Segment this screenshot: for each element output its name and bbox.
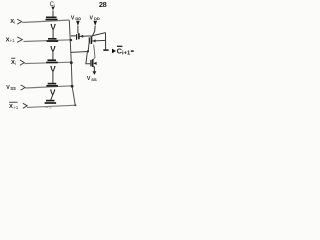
power VDD2 arrow: [93, 21, 97, 26]
svg-text:V: V: [71, 15, 75, 21]
svg-text:V: V: [90, 15, 94, 21]
input arrow Xbar i: [20, 60, 24, 65]
junction VSS row / node: [71, 85, 74, 88]
svg-text:SS: SS: [91, 77, 97, 82]
input terminal VSS left: [6, 85, 16, 91]
svg-text:DD: DD: [75, 16, 81, 21]
wire Q3 to Q4: [52, 72, 54, 84]
wire Q7 gate down: [87, 44, 90, 52]
transistor Q2: [47, 39, 59, 41]
wire Xi-1 row: [24, 40, 71, 42]
svg-text:i: i: [14, 20, 15, 25]
power VDD1 label: [71, 15, 81, 21]
wire gate node down to Q8: [86, 52, 90, 64]
source arrow Q7: [92, 39, 95, 42]
wire Xi row: [22, 20, 69, 23]
svg-text:X: X: [9, 104, 13, 110]
wire VSS row: [26, 86, 73, 88]
transistor Q3: [46, 60, 58, 62]
wire Q8 source down: [93, 67, 94, 72]
power VSS label: [87, 76, 97, 82]
svg-text:DD: DD: [94, 16, 100, 21]
svg-text:i-1: i-1: [10, 38, 15, 43]
wire Ci to Q1: [52, 11, 54, 17]
svg-text:i+1: i+1: [122, 50, 131, 56]
transistor Q1: [46, 17, 58, 19]
input terminal Xi: [10, 19, 15, 25]
input arrow Xi: [17, 19, 22, 24]
smudge below Q5: [45, 107, 48, 108]
wire Xbar i row: [25, 62, 72, 63]
wire VDD2 to Q7: [92, 26, 95, 37]
output label Cbar i+1: [117, 46, 134, 56]
svg-text:i: i: [15, 61, 16, 66]
junction bottom corner: [74, 105, 76, 107]
transistor Q6: [71, 33, 79, 40]
wire node vertical: [69, 20, 75, 105]
junction Xi-1 / node: [70, 39, 72, 41]
junction gate node: [87, 50, 89, 52]
transistor Q5: [45, 101, 57, 103]
input terminal Xbar i-1: [9, 102, 19, 110]
source arrow Q2: [50, 46, 55, 51]
power VSS arrow: [93, 71, 97, 75]
junction Xbar i / node: [70, 61, 73, 64]
input arrow Xi-1: [17, 37, 22, 42]
svg-text:28: 28: [99, 0, 107, 9]
source arrow Q6: [80, 35, 83, 38]
transistor Q7: [89, 37, 91, 44]
transistor Q8: [91, 59, 97, 67]
wire Q6 drain to output node: [80, 33, 106, 37]
wire Q7 drain to output node: [92, 39, 106, 42]
wire Q4 to Q5: [51, 95, 53, 100]
wire Q8 drain up: [93, 45, 95, 60]
source arrow Q4: [50, 89, 55, 94]
wire Q1 to Q2: [52, 29, 54, 38]
node Ci input label: [50, 2, 55, 8]
wire Q2 to Q3: [52, 52, 54, 60]
input terminal Xbar i: [11, 58, 16, 66]
svg-text:V: V: [87, 76, 91, 82]
wire Xbar i-1 row: [27, 105, 77, 107]
wire VDD1 to Q6: [77, 26, 79, 34]
svg-text:X: X: [6, 37, 10, 43]
source arrow Q1: [51, 24, 56, 29]
transistor Q4: [46, 84, 58, 86]
svg-text:SS: SS: [10, 86, 16, 91]
input arrow VSS: [21, 85, 25, 90]
Ci input arrow: [51, 7, 54, 11]
svg-text:i-1: i-1: [14, 105, 19, 110]
power VDD1 arrow: [76, 21, 80, 26]
input terminal Xi-1: [6, 37, 16, 43]
power VDD2 label: [90, 15, 100, 21]
wire gate node horizontal: [71, 51, 88, 54]
wire output tee: [103, 49, 108, 51]
wire output node vertical: [105, 33, 107, 50]
output arrow: [112, 49, 116, 54]
input arrow Xbar i-1: [23, 103, 27, 108]
source arrow Q3: [50, 66, 55, 71]
